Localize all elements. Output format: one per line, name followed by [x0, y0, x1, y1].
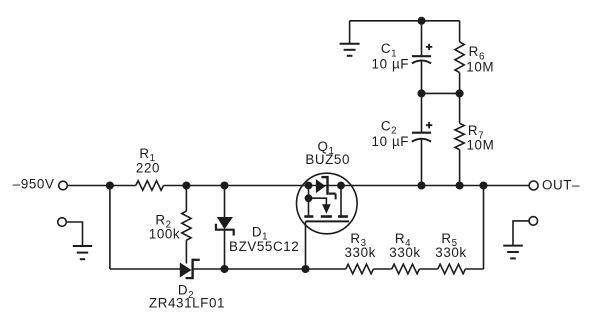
wire D1 top lead: [224, 186, 226, 218]
wire output ground: [513, 221, 529, 246]
label R4: [395, 231, 411, 249]
label C1: [381, 41, 397, 59]
wire R3-R4: [373, 268, 391, 270]
junction mid node right: [456, 89, 464, 97]
wire C2 to mid node: [421, 93, 423, 132]
transistor Q1 circle: [297, 173, 358, 234]
wire top rail: [350, 20, 460, 22]
capacitor C2: [412, 122, 432, 142]
wire C1 to top rail: [421, 21, 423, 56]
diode D1 zener: [215, 217, 235, 236]
wire mid node: [422, 92, 460, 94]
label C1 value 10 uF: [372, 56, 410, 71]
wire input to node A: [67, 185, 136, 187]
transistor Q1 channel bars: [304, 215, 348, 218]
svg-text:10M: 10M: [466, 60, 494, 75]
label C2: [381, 118, 397, 136]
ground output-side terminal: [529, 217, 538, 226]
svg-text:100k: 100k: [149, 227, 180, 242]
terminal OUT-: [529, 181, 538, 190]
label D2: [178, 283, 194, 301]
svg-text:330k: 330k: [389, 245, 420, 260]
wire R6 bottom lead: [459, 73, 461, 94]
label R3: [350, 231, 366, 249]
diode D2 shunt regulator ZR431: [180, 259, 200, 280]
terminal -950V input: [59, 181, 68, 190]
label R4 value 330k: [389, 245, 420, 260]
label C2 value 10 uF: [372, 134, 410, 149]
transistor Q1 gate bar: [306, 220, 350, 222]
label D2 value ZR431LF01: [149, 296, 225, 311]
junction R2 top: [182, 181, 190, 189]
transistor Q1 drain line: [340, 186, 342, 217]
svg-text:220: 220: [136, 160, 160, 175]
capacitor C1: [412, 44, 432, 64]
label D1 value BZV55C12: [229, 239, 299, 254]
wire top ground lead: [349, 21, 351, 44]
junction Q1 source: [305, 182, 313, 190]
junction right riser top: [479, 181, 487, 189]
wire right riser: [483, 186, 485, 270]
wire node A down: [109, 186, 111, 270]
label R6: [469, 44, 485, 62]
resistor R4: [392, 264, 420, 274]
wire D1 bottom lead: [224, 230, 226, 269]
label Q1 value BUZ50: [305, 152, 350, 167]
ground output-side: [503, 246, 523, 259]
resistor R3: [346, 264, 374, 274]
label R6 value 10M: [466, 60, 494, 75]
wire R1 to Q1 rail: [163, 185, 529, 187]
junction R7 bottom: [456, 181, 464, 189]
label R3 value 330k: [344, 245, 375, 260]
ground top: [340, 44, 360, 56]
junction node A: [106, 181, 114, 189]
label R5 value 330k: [435, 245, 466, 260]
junction Q1 drain: [337, 182, 345, 190]
wire input ground: [66, 222, 82, 246]
svg-text:OUT–: OUT–: [542, 178, 580, 193]
wire bottom rail to D2: [110, 268, 180, 270]
label R7: [468, 123, 484, 141]
transistor Q1 body diode: [316, 176, 336, 200]
junction D1 bottom: [220, 265, 228, 273]
label R2 value 100k: [149, 227, 180, 242]
wire R6 to top rail: [459, 21, 461, 42]
label -950V: [13, 177, 55, 192]
transistor Q1 body arrow: [309, 198, 331, 214]
svg-text:330k: 330k: [435, 245, 466, 260]
wire R2 to D2 ref: [185, 240, 187, 263]
svg-text:330k: 330k: [344, 245, 375, 260]
svg-text:10M: 10M: [467, 138, 495, 153]
ground input-side terminal: [58, 218, 67, 227]
svg-text:–950V: –950V: [13, 177, 55, 192]
svg-text:10 µF: 10 µF: [372, 56, 410, 71]
resistor R2: [182, 211, 191, 240]
junction Q1 gate node: [301, 265, 309, 273]
junction cap column rail: [417, 181, 425, 189]
wire Q1 gate down: [305, 221, 307, 269]
junction mid node left: [417, 89, 425, 97]
wire R7 bottom lead: [459, 150, 461, 186]
junction Q1 body: [305, 194, 313, 202]
transistor Q1 source line: [308, 186, 310, 217]
label Q1: [317, 139, 334, 157]
resistor R7: [455, 123, 464, 149]
label D1: [252, 225, 268, 243]
resistor R5: [438, 264, 466, 274]
wire C2 bottom lead: [421, 140, 423, 186]
svg-text:ZR431LF01: ZR431LF01: [149, 296, 225, 311]
wire R2 top lead: [185, 186, 187, 212]
label R1 value 220: [136, 160, 160, 175]
label R7 value 10M: [467, 138, 495, 153]
label R2: [155, 212, 171, 230]
svg-text:BUZ50: BUZ50: [305, 152, 350, 167]
wire R4-R5: [419, 268, 437, 270]
resistor R6: [455, 42, 464, 73]
wire D2 to bottom rail: [193, 268, 346, 270]
label R5: [441, 231, 457, 249]
junction top rail: [417, 17, 425, 25]
svg-text:10 µF: 10 µF: [372, 134, 410, 149]
resistor R1: [136, 181, 164, 191]
wire R5 to riser: [465, 268, 483, 270]
junction D1 top: [220, 181, 228, 189]
wire R7 to mid node: [459, 93, 461, 123]
label R1: [139, 146, 155, 164]
ground input-side: [73, 246, 92, 259]
svg-text:BZV55C12: BZV55C12: [229, 239, 299, 254]
wire C1 bottom lead: [421, 61, 423, 93]
label OUT-: [542, 178, 580, 193]
